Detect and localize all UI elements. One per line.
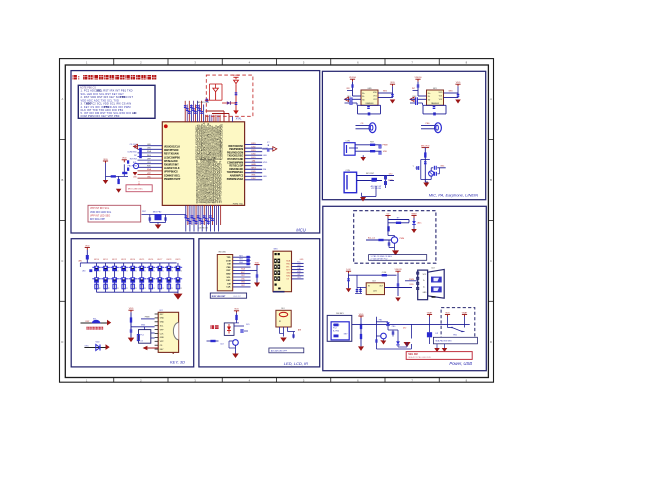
svg-text:KEY8: KEY8 <box>166 259 171 261</box>
svg-text:LED: LED <box>147 144 151 146</box>
svg-text:RST/SCL/DP: RST/SCL/DP <box>229 166 243 168</box>
svg-text:LED: LED <box>251 153 256 155</box>
svg-text:A: A <box>62 97 64 101</box>
svg-text:DM KEY: DM KEY <box>336 313 344 315</box>
svg-text:PB0: PB0 <box>286 263 289 265</box>
svg-text:DM/AIN/ADC: DM/AIN/ADC <box>229 168 243 171</box>
svg-text:DM: DM <box>298 268 301 270</box>
svg-text:LED/KEY/CLK: LED/KEY/CLK <box>164 168 180 170</box>
svg-text:VDD: VDD <box>383 151 388 153</box>
svg-text:PWM: PWM <box>383 145 388 147</box>
svg-text:ADC AIN LED VPP: ADC AIN LED VPP <box>271 349 288 352</box>
svg-text:VDD: VDD <box>445 312 450 314</box>
svg-text:PWM/PB1/SDA: PWM/PB1/SDA <box>227 178 244 181</box>
svg-text:SEG DM: SEG DM <box>408 353 417 356</box>
svg-text:OSC: OSC <box>226 280 231 282</box>
svg-text:SEG: SEG <box>96 89 101 93</box>
svg-text:VDD: VDD <box>129 308 134 310</box>
svg-text:VDD: VDD <box>263 162 268 164</box>
svg-text:5.0V: 5.0V <box>346 269 351 271</box>
svg-text:SEG PB0: SEG PB0 <box>153 212 162 214</box>
svg-text:DIO: DIO <box>281 308 285 310</box>
svg-text:KEY1: KEY1 <box>103 259 108 261</box>
svg-text:MIC, PA, Earphone, LINEIN: MIC, PA, Earphone, LINEIN <box>429 193 478 198</box>
svg-text:B: B <box>490 178 492 182</box>
svg-text:VBAT: VBAT <box>427 311 433 314</box>
svg-text:VDD33: VDD33 <box>394 269 402 271</box>
svg-text:VDD DIO GND SCL: VDD DIO GND SCL <box>90 211 112 214</box>
svg-text:RXD: RXD <box>251 143 256 145</box>
svg-text:PB1/RXD/COM: PB1/RXD/COM <box>227 152 243 154</box>
svg-text:IN+: IN+ <box>362 93 365 95</box>
svg-text:SEG: SEG <box>274 249 279 251</box>
svg-text:SEG: SEG <box>147 155 152 157</box>
svg-text:PB0 PWM: PB0 PWM <box>128 166 138 168</box>
svg-text:DM: DM <box>227 264 230 266</box>
svg-text:PB1: PB1 <box>379 319 382 321</box>
svg-text:COM: COM <box>382 272 387 274</box>
svg-text:VDD50: VDD50 <box>349 77 357 79</box>
svg-text:COM RXD: COM RXD <box>127 151 137 153</box>
svg-text:VDD: VDD <box>409 284 414 286</box>
svg-text:IRX/TXD/OSC: IRX/TXD/OSC <box>228 146 243 148</box>
svg-text:GND: GND <box>241 282 246 284</box>
svg-text:VDD: VDD <box>122 158 127 160</box>
svg-text:VPP INT LED SEG: VPP INT LED SEG <box>90 215 110 218</box>
svg-text:LED: LED <box>263 155 267 157</box>
svg-text:VO2: VO2 <box>439 99 443 101</box>
svg-text:PB1: PB1 <box>453 335 457 337</box>
svg-text:PB0: PB0 <box>392 326 395 328</box>
svg-text:GND: GND <box>141 325 146 327</box>
svg-text:SEG: SEG <box>383 91 388 93</box>
svg-text:PWM: PWM <box>400 238 405 240</box>
svg-text:XTAL: XTAL <box>236 118 242 121</box>
svg-text:CON: CON <box>346 141 351 143</box>
svg-text:DM/VPP/VDD: DM/VPP/VDD <box>164 150 179 152</box>
svg-text:TXD/OSC/SEG: TXD/OSC/SEG <box>227 156 243 158</box>
svg-text:ADC: ADC <box>418 221 423 224</box>
svg-text:IRX COM OSC: IRX COM OSC <box>128 188 143 190</box>
svg-text:DIO: DIO <box>389 173 393 175</box>
svg-text:DIO: DIO <box>403 328 407 330</box>
svg-text:AIN/DM/PC2: AIN/DM/PC2 <box>230 175 244 178</box>
svg-text:B: B <box>62 178 64 182</box>
svg-text:GND: GND <box>160 337 165 339</box>
svg-text:PC2: PC2 <box>333 328 337 330</box>
svg-text:D: D <box>61 340 63 344</box>
svg-text:VDD: VDD <box>359 314 364 316</box>
svg-text:LED KEY LED: LED KEY LED <box>197 102 210 104</box>
svg-text:GND: GND <box>286 273 291 275</box>
svg-text:KEY6: KEY6 <box>148 259 153 261</box>
svg-text:MCU: MCU <box>296 228 307 233</box>
svg-text:VPP/PB0/CS: VPP/PB0/CS <box>164 172 178 174</box>
svg-text:PC2: PC2 <box>140 335 144 337</box>
svg-text:RST/RST/GND: RST/RST/GND <box>227 159 243 161</box>
svg-text:RXD VDD RST: RXD VDD RST <box>212 296 226 298</box>
svg-text:GND INT: GND INT <box>233 296 242 298</box>
svg-text:PAM8403: PAM8403 <box>366 102 374 105</box>
svg-text:PWM: PWM <box>145 317 150 319</box>
svg-text:AIN: AIN <box>132 111 137 115</box>
svg-text:RXD/RST/INT: RXD/RST/INT <box>164 165 179 167</box>
svg-text:VDD/OSC/CLK: VDD/OSC/CLK <box>164 147 180 149</box>
svg-text:VPP INT IRX SCL: VPP INT IRX SCL <box>90 207 110 210</box>
svg-text:PWM/RST/VPP: PWM/RST/VPP <box>164 179 181 181</box>
svg-text:VO1: VO1 <box>439 95 443 97</box>
svg-text:VDD: VDD <box>456 82 461 84</box>
svg-text:RST/TXD/AIN: RST/TXD/AIN <box>164 153 179 156</box>
svg-text:C: C <box>490 259 492 263</box>
svg-text:DM: DM <box>263 169 266 171</box>
svg-text:RXD: RXD <box>251 150 256 152</box>
svg-text:VDD50: VDD50 <box>414 77 422 79</box>
svg-text:IRX: IRX <box>252 175 256 177</box>
svg-text:OSC: OSC <box>85 345 90 347</box>
svg-text:COM/KEY/SCL: COM/KEY/SCL <box>164 175 181 177</box>
svg-text:IRX LED: IRX LED <box>219 252 227 254</box>
svg-text:KEY2: KEY2 <box>112 259 117 261</box>
svg-text:SDA PC2 PB0 LED RXD: SDA PC2 PB0 LED RXD <box>408 356 431 359</box>
svg-text:CLK: CLK <box>226 287 231 289</box>
svg-text:COM PWM IRX KEY VPP PB0: COM PWM IRX KEY VPP PB0 <box>81 114 120 118</box>
svg-text:B- PB0: B- PB0 <box>333 331 339 333</box>
svg-text:LED: LED <box>263 176 267 178</box>
svg-text:D: D <box>490 340 492 344</box>
svg-text:SCL: SCL <box>246 324 250 326</box>
svg-text:COM: COM <box>226 260 231 262</box>
svg-text:Power, USB: Power, USB <box>449 361 472 366</box>
svg-text:VO2: VO2 <box>373 99 377 101</box>
svg-text:LED: LED <box>251 146 256 148</box>
svg-text:RXD: RXD <box>147 166 152 168</box>
svg-text:VDD: VDD <box>234 309 239 311</box>
svg-text:TXD: TXD <box>227 257 232 259</box>
svg-text:VDD: VDD <box>390 82 395 84</box>
svg-text:IN+: IN+ <box>428 93 431 95</box>
svg-text:TXD: TXD <box>120 95 125 99</box>
svg-text:KEY RST: KEY RST <box>366 173 375 175</box>
svg-text:SEG: SEG <box>449 91 454 93</box>
svg-text:COM/DM/PWM: COM/DM/PWM <box>227 162 243 164</box>
svg-text:INT IRX: INT IRX <box>130 159 138 161</box>
svg-text:SEG: SEG <box>86 102 91 106</box>
svg-text:IRX SDA VPP: IRX SDA VPP <box>90 218 105 221</box>
svg-text:KEY7: KEY7 <box>157 259 162 261</box>
svg-text:SCL: SCL <box>297 262 301 264</box>
svg-text:GND: GND <box>367 88 372 90</box>
svg-text:GND: GND <box>251 164 256 166</box>
svg-text:PB1: PB1 <box>104 105 110 109</box>
svg-text:DIO: DIO <box>252 157 256 159</box>
svg-text:VBAT: VBAT <box>411 212 417 215</box>
svg-text:KEY4: KEY4 <box>130 259 135 261</box>
svg-text:LED, LCD, IR: LED, LCD, IR <box>284 361 308 366</box>
svg-text:VDD50: VDD50 <box>232 75 240 77</box>
svg-text:PB0/PB0/DM: PB0/PB0/DM <box>229 149 243 151</box>
svg-text:VDD: VDD <box>103 159 108 161</box>
svg-text:KEY5: KEY5 <box>139 259 144 261</box>
svg-text:MIC: MIC <box>441 165 445 167</box>
svg-text:GND: GND <box>226 274 231 276</box>
svg-text:DIO: DIO <box>347 96 351 98</box>
svg-text:VDD: VDD <box>96 341 101 343</box>
svg-text:DP/SEG/AIN: DP/SEG/AIN <box>164 160 178 163</box>
svg-text:Bat_out: Bat_out <box>368 236 375 239</box>
svg-text:OSC: OSC <box>147 176 152 178</box>
svg-text:LED: LED <box>147 148 151 150</box>
svg-text:KEY3: KEY3 <box>121 259 126 261</box>
svg-text:12VPPTXDPB0GNDIRXKEYCSSCLDPP: 12VPPTXDPB0GNDIRXKEYCSSCLDPP <box>221 160 223 203</box>
svg-text:CS IRX CS: CS IRX CS <box>198 228 208 230</box>
svg-text:GND: GND <box>160 318 165 320</box>
svg-text:SEG: SEG <box>251 168 256 170</box>
svg-text:LED/COM/PB0: LED/COM/PB0 <box>164 157 181 159</box>
svg-text:KEY, 3D: KEY, 3D <box>170 359 185 364</box>
svg-text:P13GNDCOMDMCLKLEDSDADIO: P13GNDCOMDMCLKLEDSDADIO <box>221 124 224 161</box>
svg-text:A: A <box>490 97 492 101</box>
svg-text:OSC: OSC <box>251 178 256 180</box>
svg-text:IN-: IN- <box>428 96 431 98</box>
svg-text:KEY9: KEY9 <box>176 259 181 261</box>
svg-text:D+: D+ <box>423 286 425 288</box>
svg-text:IN-: IN- <box>362 96 365 98</box>
svg-text:GND: GND <box>160 322 165 324</box>
svg-text:C: C <box>61 259 63 263</box>
svg-text:GND: GND <box>239 262 244 264</box>
svg-text:SCL: SCL <box>160 326 164 328</box>
svg-text:PC2: PC2 <box>413 96 417 98</box>
svg-text:PWM TXD: PWM TXD <box>233 203 244 205</box>
svg-text:VBAT: VBAT <box>462 311 468 314</box>
svg-text:2. VDD DP INT PC2: 2. VDD DP INT PC2 <box>371 258 388 260</box>
svg-text:PAM8403: PAM8403 <box>431 102 439 105</box>
svg-text:TXD/PWM/SEG: TXD/PWM/SEG <box>227 172 244 174</box>
svg-text:SDA PB0 IRX SEG: SDA PB0 IRX SEG <box>435 340 452 343</box>
svg-text:VDD: VDD <box>85 245 90 247</box>
svg-text:DM: DM <box>227 283 230 285</box>
svg-text:DM: DM <box>252 161 256 163</box>
svg-text:KEY0: KEY0 <box>94 259 99 261</box>
svg-text:LED: LED <box>251 171 256 173</box>
svg-text:CON: CON <box>346 170 351 172</box>
svg-text:VO1: VO1 <box>373 95 377 97</box>
svg-text:LED: LED <box>133 177 137 179</box>
svg-text:LDO: LDO <box>373 291 378 293</box>
